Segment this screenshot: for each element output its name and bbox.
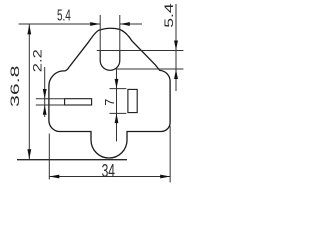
arrowhead right 5.4 up-pointing — [174, 69, 178, 79]
extension line, slot bottom (to right 5.4 dim) — [114, 68, 183, 70]
extension line, body right edge (34) — [169, 126, 171, 183]
arrowhead 2.2 up-pointing — [43, 105, 47, 115]
arrowhead top 5.4 right-pointing — [90, 22, 100, 26]
arrowhead 36.8 down-pointing — [27, 149, 31, 159]
arrowhead right 5.4 down-pointing — [174, 41, 178, 51]
extension line, bottom baseline (36.8) — [17, 159, 127, 161]
part outline (body with top hump and bottom round tab) — [49, 28, 170, 158]
svg-text:2.2: 2.2 — [30, 49, 44, 72]
dim line 2.2 (vertical) — [44, 67, 46, 117]
extension line, body left edge (34) — [48, 134, 50, 180]
svg-text:5.4: 5.4 — [162, 3, 176, 28]
extension line, right slot bottom (7) — [110, 112, 127, 114]
arrowhead 7 up-pointing — [115, 113, 119, 123]
arrowhead 7 down-pointing — [115, 79, 119, 89]
left horizontal slot — [65, 99, 92, 105]
svg-text:34: 34 — [102, 161, 115, 181]
svg-text:36.8: 36.8 — [8, 65, 22, 107]
dim line top 5.4, left part — [19, 23, 101, 25]
keyhole slot in hump (U-shaped slot, open sides + semicircular bottom) — [100, 51, 120, 71]
right vertical slot — [128, 89, 137, 112]
dim line 34 (horizontal) — [49, 176, 170, 178]
extension line, right slot top (7) — [110, 88, 127, 90]
arrowhead 2.2 down-pointing — [43, 89, 47, 99]
svg-text:5.4: 5.4 — [57, 8, 71, 25]
extension line, slot left edge — [99, 15, 101, 51]
extension line, slot top (to right 5.4 dim) — [97, 50, 184, 52]
dim line top 5.4, right tail — [120, 23, 142, 25]
dim line 7 (vertical) — [116, 69, 118, 142]
arrowhead top 5.4 left-pointing — [120, 22, 130, 26]
arrowhead 34 right-pointing — [160, 175, 170, 179]
extension line, left slot bottom (2.2) — [36, 104, 65, 106]
dim line 36.8 (vertical) — [28, 24, 30, 160]
arrowhead 34 left-pointing — [49, 175, 59, 179]
svg-text:7: 7 — [103, 99, 117, 106]
arrowhead 36.8 up-pointing — [27, 24, 31, 34]
dim line right 5.4 (vertical) — [175, 4, 177, 91]
extension line, slot right edge — [119, 15, 121, 51]
extension line, left slot top (2.2) — [36, 98, 65, 100]
